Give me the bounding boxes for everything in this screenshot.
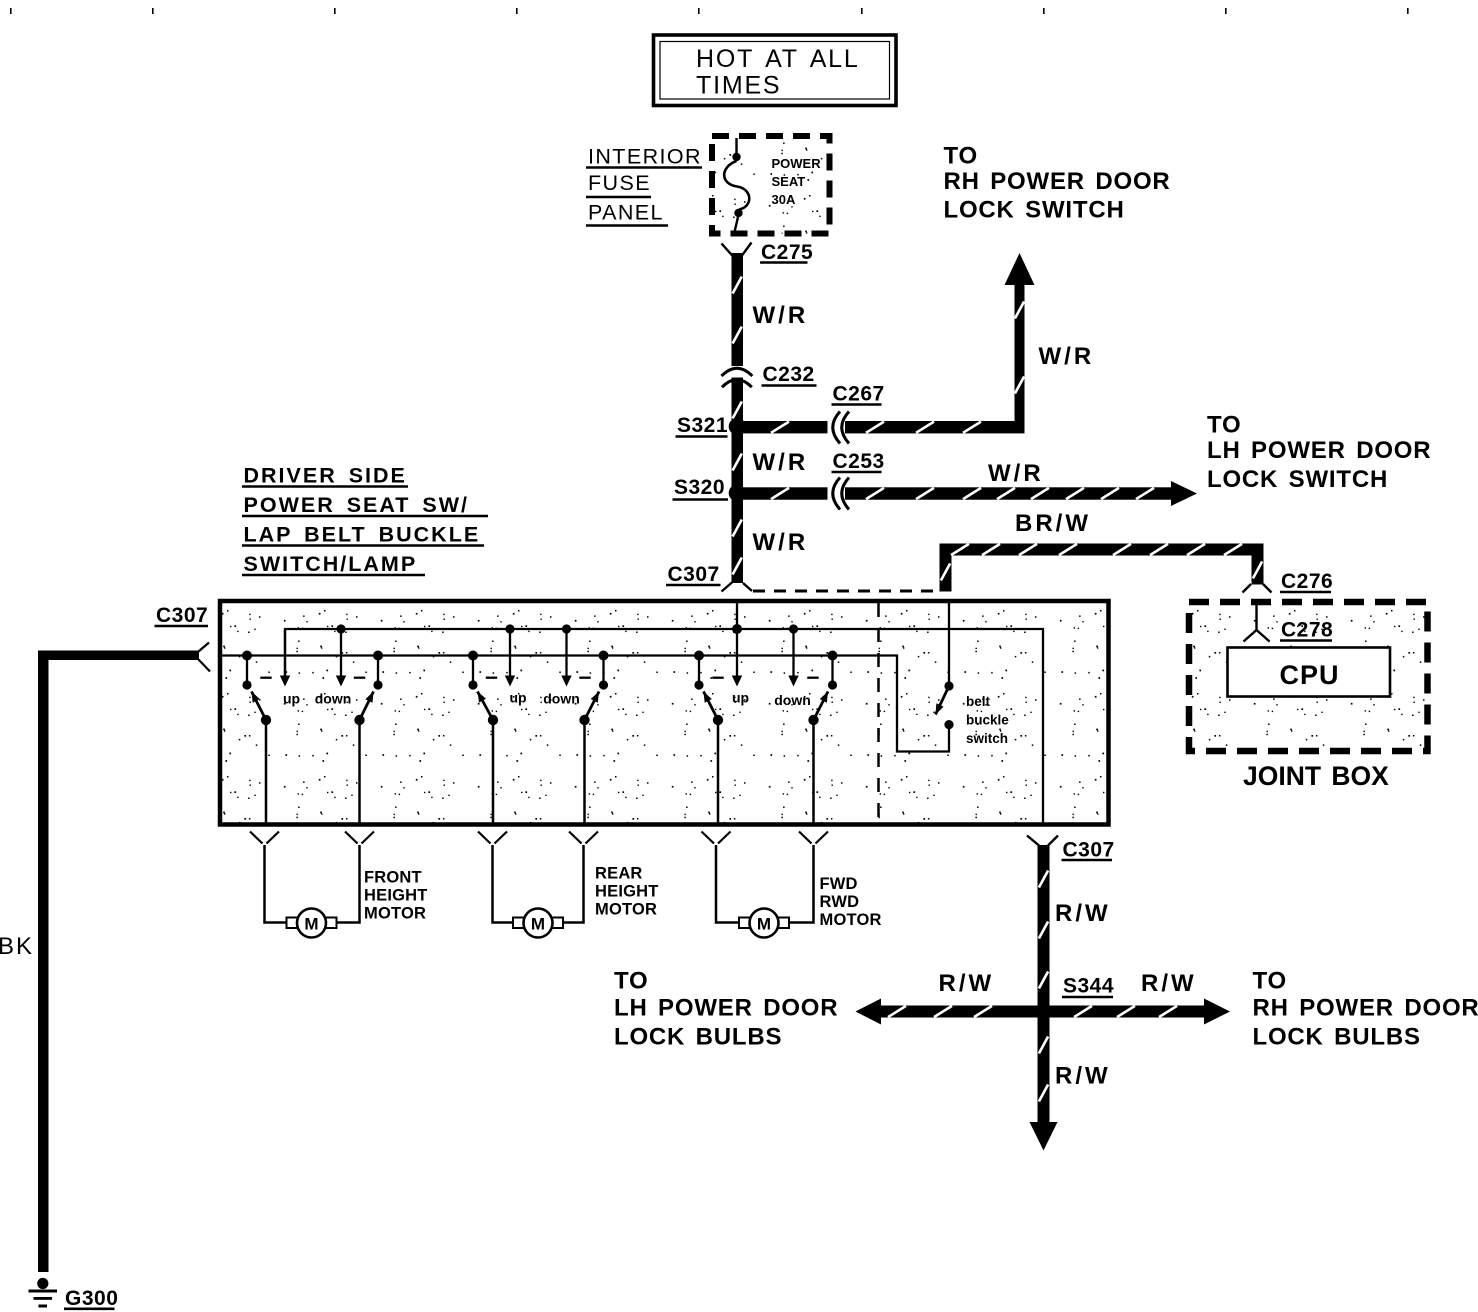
- svg-text:down: down: [543, 691, 580, 707]
- svg-text:M: M: [531, 915, 545, 934]
- switch rear height motor: contacts: [468, 624, 609, 689]
- svg-text:TO: TO: [944, 143, 979, 170]
- destination text TO RH POWER DOOR LOCK SWITCH: [944, 143, 1171, 224]
- destination text TO LH POWER DOOR LOCK BULBS: [614, 968, 838, 1051]
- svg-text:S320: S320: [674, 476, 725, 499]
- label rear height motor M2: [595, 865, 659, 919]
- wire BK to ground: [38, 651, 199, 1273]
- svg-text:BK: BK: [0, 933, 34, 960]
- svg-text:RH POWER DOOR: RH POWER DOOR: [944, 168, 1171, 195]
- svg-text:belt: belt: [966, 694, 991, 709]
- joint box (dashed): [1189, 602, 1428, 751]
- label belt buckle switch: [966, 694, 1009, 746]
- svg-text:POWER: POWER: [772, 156, 822, 171]
- splice S321: [676, 414, 746, 437]
- wire lower bus (up contacts feed): [222, 656, 949, 752]
- svg-text:FUSE: FUSE: [588, 171, 651, 195]
- svg-text:HOT AT ALL: HOT AT ALL: [696, 45, 860, 73]
- svg-text:down: down: [774, 692, 811, 708]
- svg-text:BR/W: BR/W: [1015, 510, 1091, 537]
- svg-text:R/W: R/W: [1055, 1063, 1111, 1090]
- svg-text:POWER SEAT SW/: POWER SEAT SW/: [244, 493, 470, 517]
- wire R/W horizontal to LH / RH power door lock bulbs: [856, 999, 1231, 1025]
- svg-text:S321: S321: [677, 414, 728, 437]
- splice S320: [673, 476, 746, 502]
- switch front height motor: wipers: [252, 692, 374, 824]
- wire W/R from S321 to RH power door lock switch: [743, 253, 1035, 433]
- ground G300: [29, 1278, 119, 1310]
- svg-text:R/W: R/W: [1141, 970, 1197, 997]
- fuse POWER SEAT 30A: [724, 138, 821, 232]
- connector C276: [1243, 570, 1334, 593]
- connector C307 (bottom): [1027, 836, 1115, 862]
- destination text TO RH POWER DOOR LOCK BULBS: [1253, 968, 1478, 1051]
- svg-text:M: M: [304, 915, 318, 934]
- svg-text:S344: S344: [1063, 975, 1114, 998]
- wire feed from C307 to upper bus: [736, 601, 738, 629]
- motor rear height motor M2: [493, 845, 584, 938]
- svg-text:TO: TO: [1207, 412, 1242, 439]
- svg-text:LOCK SWITCH: LOCK SWITCH: [944, 197, 1125, 224]
- label INTERIOR FUSE PANEL: [586, 145, 702, 226]
- svg-text:W/R: W/R: [1039, 343, 1095, 370]
- labels R/W: [939, 900, 1197, 1090]
- svg-text:FWD: FWD: [820, 875, 858, 893]
- svg-text:TO: TO: [1253, 968, 1288, 995]
- connector C275: [722, 241, 814, 264]
- CPU box: [1228, 648, 1391, 697]
- svg-text:switch: switch: [966, 731, 1008, 746]
- svg-text:LH POWER DOOR: LH POWER DOOR: [1207, 437, 1431, 464]
- wire upper bus (down contacts feed): [285, 629, 1043, 823]
- motor fwd rwd motor M3: [716, 845, 814, 938]
- svg-text:W/R: W/R: [988, 460, 1044, 487]
- power source box "HOT AT ALL TIMES": [654, 35, 897, 106]
- svg-text:DRIVER SIDE: DRIVER SIDE: [244, 464, 407, 488]
- svg-text:up: up: [732, 690, 749, 706]
- wire W/R from S320 to C307: [732, 493, 744, 583]
- svg-text:30A: 30A: [772, 192, 796, 207]
- svg-text:RH POWER DOOR: RH POWER DOOR: [1253, 995, 1478, 1022]
- connector pair to rear height motor M2: [478, 832, 598, 844]
- wire W/R from C275 to S321: [732, 253, 744, 427]
- svg-text:MOTOR: MOTOR: [820, 911, 882, 929]
- svg-text:REAR: REAR: [595, 865, 643, 883]
- connector C232: [722, 363, 817, 387]
- svg-text:LH POWER DOOR: LH POWER DOOR: [614, 995, 838, 1022]
- label fwd rwd motor M3: [820, 875, 882, 929]
- switch rear height motor: wipers: [478, 692, 600, 824]
- labels up / down: [509, 690, 579, 707]
- motor front height motor M1: [265, 845, 360, 938]
- svg-text:MOTOR: MOTOR: [364, 905, 426, 923]
- svg-text:FRONT: FRONT: [364, 869, 422, 887]
- svg-text:LOCK BULBS: LOCK BULBS: [614, 1024, 782, 1051]
- connector C307 (left): [155, 604, 211, 672]
- svg-text:C307: C307: [1063, 839, 1115, 862]
- svg-text:CPU: CPU: [1280, 660, 1340, 690]
- label front height motor M1: [364, 869, 428, 923]
- svg-text:INTERIOR: INTERIOR: [588, 145, 702, 169]
- svg-text:JOINT BOX: JOINT BOX: [1243, 761, 1389, 791]
- svg-text:MOTOR: MOTOR: [595, 901, 657, 919]
- svg-text:TIMES: TIMES: [696, 72, 781, 100]
- connector pair to fwd rwd motor M3: [702, 832, 829, 844]
- dashed internal divider: [877, 603, 880, 823]
- svg-text:SWITCH/LAMP: SWITCH/LAMP: [244, 552, 418, 576]
- label DRIVER SIDE POWER SEAT SW / LAP BELT BUCKLE SWITCH/LAMP: [242, 464, 488, 577]
- svg-text:up: up: [509, 690, 526, 706]
- svg-text:W/R: W/R: [753, 529, 809, 556]
- svg-text:C267: C267: [833, 383, 885, 406]
- splice S344: [1036, 1004, 1051, 1019]
- wire R/W vertical with S344: [1030, 845, 1058, 1151]
- svg-text:LOCK SWITCH: LOCK SWITCH: [1207, 466, 1388, 493]
- svg-text:PANEL: PANEL: [588, 201, 664, 225]
- svg-text:M: M: [757, 915, 771, 934]
- svg-text:LOCK BULBS: LOCK BULBS: [1253, 1024, 1421, 1051]
- wire BR/W to joint box C276: [940, 544, 1264, 592]
- switch fwd rwd motor: wipers: [704, 692, 829, 824]
- svg-text:C275: C275: [761, 241, 813, 264]
- destination text TO LH POWER DOOR LOCK SWITCH: [1207, 412, 1431, 494]
- svg-text:HEIGHT: HEIGHT: [595, 883, 659, 901]
- svg-text:SEAT: SEAT: [772, 174, 806, 189]
- svg-text:C253: C253: [833, 450, 885, 473]
- wire feed to belt buckle switch: [948, 601, 950, 686]
- svg-text:C232: C232: [763, 363, 815, 386]
- connector C307 (top): [666, 563, 752, 592]
- driver side power seat switch box: [220, 601, 1109, 825]
- connector C267: [828, 383, 885, 444]
- switch fwd rwd motor: contacts: [694, 624, 838, 689]
- svg-text:W/R: W/R: [753, 302, 809, 329]
- interior fuse panel dashed box: [712, 136, 830, 234]
- svg-text:R/W: R/W: [939, 970, 995, 997]
- svg-text:W/R: W/R: [753, 449, 809, 476]
- svg-text:RWD: RWD: [820, 893, 860, 911]
- connector C253: [828, 450, 885, 510]
- dashed wire from C307 to BR/W branch: [753, 590, 938, 593]
- labels up / down: [283, 691, 351, 707]
- svg-text:G300: G300: [65, 1287, 118, 1310]
- svg-text:buckle: buckle: [966, 713, 1009, 728]
- wire W/R from S321 to S320: [732, 427, 744, 494]
- switch front height motor: contacts: [242, 624, 383, 689]
- svg-text:C278: C278: [1281, 619, 1333, 642]
- svg-text:TO: TO: [614, 968, 649, 995]
- svg-text:C307: C307: [668, 563, 720, 586]
- connector C278: [1244, 603, 1334, 642]
- svg-text:C307: C307: [156, 604, 208, 627]
- svg-text:LAP BELT BUCKLE: LAP BELT BUCKLE: [244, 523, 481, 547]
- svg-text:up: up: [283, 691, 300, 707]
- svg-text:HEIGHT: HEIGHT: [364, 887, 428, 905]
- belt buckle switch: [936, 681, 954, 729]
- wire W/R from S320 to LH power door lock switch: [743, 481, 1197, 506]
- connector pair to front height motor M1: [250, 832, 374, 844]
- svg-text:R/W: R/W: [1055, 900, 1111, 927]
- svg-text:down: down: [315, 691, 352, 707]
- svg-text:C276: C276: [1281, 570, 1333, 593]
- labels up / down: [732, 690, 811, 709]
